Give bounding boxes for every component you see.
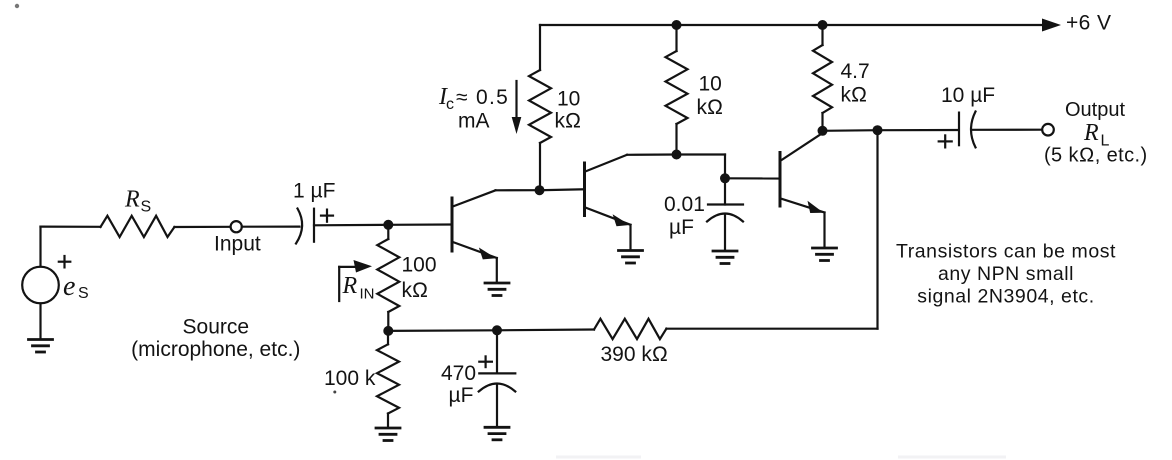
svg-text:R: R <box>1083 120 1099 146</box>
svg-text:kΩ: kΩ <box>697 96 724 119</box>
ground (R6) <box>376 428 400 441</box>
RIN bracket arrow <box>338 267 340 301</box>
speck dot <box>333 391 336 394</box>
svg-text:100: 100 <box>402 254 437 277</box>
node H junction dot (output node) <box>873 125 883 135</box>
rail junction dot at R2 <box>672 20 682 30</box>
Q3 emitter diagonal with arrow <box>781 199 825 213</box>
wire node F to Q3 base <box>725 177 780 179</box>
Q3 collector diagonal <box>781 133 823 161</box>
svg-text:100 k: 100 k <box>324 367 376 390</box>
Q2 collector diagonal <box>585 155 627 172</box>
resistor R6 100 k (emitter bias to ground) <box>387 331 389 344</box>
capacitor C1 1 µF curved plate <box>296 209 302 244</box>
node G junction dot (Q3 collector) <box>818 126 828 136</box>
svg-text:c: c <box>446 96 454 113</box>
svg-text:390 kΩ: 390 kΩ <box>601 343 669 366</box>
+6V supply rail wire <box>540 24 1044 26</box>
Q3 emitter wire down <box>823 213 825 248</box>
C4 plus sign <box>479 361 492 363</box>
wire node G to node H <box>823 129 878 132</box>
node B junction dot <box>383 220 393 230</box>
svg-text:(microphone, etc.): (microphone, etc.) <box>131 338 300 361</box>
Q2 emitter diagonal with arrow <box>585 208 630 225</box>
svg-text:µF: µF <box>669 216 694 239</box>
ground (C4) <box>485 427 509 440</box>
svg-text:any NPN small: any NPN small <box>938 263 1074 285</box>
resistor R2 10 kΩ (second stage collector load) <box>675 25 677 51</box>
capacitor C1 straight plate <box>313 209 315 242</box>
node A junction dot <box>535 185 545 195</box>
svg-text:R: R <box>124 187 140 213</box>
node F junction dot <box>720 173 730 183</box>
C4 straight plate <box>479 372 515 374</box>
node E junction dot <box>672 150 682 160</box>
ground (Q3 emitter) <box>813 248 837 261</box>
svg-text:Output: Output <box>1065 99 1125 121</box>
wire source top to input row <box>39 227 41 267</box>
wire C2 to output terminal <box>973 129 1042 131</box>
svg-text:Input: Input <box>214 233 261 256</box>
Ic current arrow <box>515 81 517 119</box>
svg-text:kΩ: kΩ <box>402 279 429 302</box>
svg-text:e: e <box>63 271 75 302</box>
wire C1 to node B <box>314 224 389 227</box>
Q2 collector wire to node E <box>627 153 677 156</box>
svg-text:0.01: 0.01 <box>664 193 705 216</box>
svg-text:10: 10 <box>699 73 722 96</box>
wire node E to corner above node F <box>677 153 726 155</box>
svg-text:(5 kΩ, etc.): (5 kΩ, etc.) <box>1044 145 1148 167</box>
C1 plus sign <box>321 215 333 217</box>
rail junction dot at R4 <box>818 20 828 30</box>
transistor Q2 base bar <box>583 163 586 216</box>
ground (C3) <box>713 251 737 264</box>
svg-text:≈ 0.5: ≈ 0.5 <box>456 86 509 109</box>
wire node H to C2 <box>878 129 959 131</box>
node C junction dot <box>383 326 393 336</box>
svg-text:10: 10 <box>557 88 580 111</box>
svg-text:µF: µF <box>449 384 474 407</box>
capacitor C3 0.01 µF lead <box>724 178 726 204</box>
wire RS to input node <box>174 226 230 228</box>
ground (Q1 emitter) <box>485 283 509 296</box>
C4 curved plate <box>479 384 516 392</box>
C2 plus sign <box>939 140 952 142</box>
C3 curved plate <box>707 214 743 222</box>
wire source bottom <box>39 303 41 339</box>
input node (open circle) <box>231 221 242 232</box>
capacitor C2 10 µF straight plate <box>958 113 960 146</box>
svg-text:S: S <box>78 285 89 302</box>
C2 curved plate <box>971 112 976 148</box>
svg-text:Source: Source <box>183 316 250 339</box>
resistor R3 100 kΩ (RIN, base bias) <box>387 225 389 239</box>
Q1 emitter diagonal with arrow <box>453 242 497 258</box>
voltage source eS circle <box>22 267 59 304</box>
node: rail corner to R1 <box>539 25 541 70</box>
svg-text:S: S <box>141 199 152 216</box>
node D junction dot <box>492 325 502 335</box>
svg-text:470: 470 <box>441 362 476 385</box>
Q1 collector diagonal <box>453 190 496 206</box>
svg-text:+6 V: +6 V <box>1066 12 1111 35</box>
wire 390k to node D <box>497 328 594 331</box>
resistor R4 4.7 kΩ (third stage collector load) <box>821 25 823 45</box>
C3 straight plate <box>708 203 743 205</box>
wire node C to node D <box>388 329 497 332</box>
capacitor C4 470 µF lead <box>496 330 498 373</box>
C3 lead to ground <box>724 214 726 251</box>
transistor Q1 base bar <box>451 198 454 251</box>
ground (Q2 emitter) <box>619 251 643 264</box>
svg-text:10 µF: 10 µF <box>941 84 995 107</box>
eS plus sign <box>59 261 71 263</box>
resistor R5 390 kΩ (feedback) <box>594 319 666 339</box>
svg-text:mA: mA <box>458 110 490 133</box>
svg-text:4.7: 4.7 <box>841 60 870 83</box>
wire top-left horizontal <box>41 226 101 228</box>
wire node A to Q2 base <box>540 188 585 191</box>
svg-text:R: R <box>342 273 358 299</box>
resistor R1 10 kΩ (first stage collector load) <box>529 70 551 143</box>
C4 lead to ground <box>496 384 498 427</box>
wire node B to Q1 base <box>388 223 451 226</box>
wire R1 bottom to node A <box>539 143 541 190</box>
svg-text:kΩ: kΩ <box>841 84 868 107</box>
svg-text:signal 2N3904, etc.: signal 2N3904, etc. <box>917 286 1094 308</box>
feedback horizontal wire to 390k <box>666 328 877 330</box>
Q2 emitter wire down <box>629 225 631 250</box>
+6V arrowhead <box>1042 19 1061 32</box>
feedback vertical wire <box>876 130 878 329</box>
svg-text:kΩ: kΩ <box>555 110 582 133</box>
svg-text:IN: IN <box>360 286 375 303</box>
scan speck top-left <box>15 4 19 8</box>
resistor RS (zigzag) <box>101 216 175 237</box>
svg-text:Transistors can be most: Transistors can be most <box>896 241 1116 263</box>
wire input node to C1 <box>242 226 300 228</box>
Q1 collector wire to node A <box>496 189 540 191</box>
svg-text:1 µF: 1 µF <box>293 180 335 203</box>
ground (source) <box>29 340 53 353</box>
transistor Q3 base bar <box>779 153 782 207</box>
faint bottom artifacts <box>556 456 641 459</box>
output terminal (open circle) <box>1042 124 1054 136</box>
Q1 emitter wire down <box>496 258 498 283</box>
